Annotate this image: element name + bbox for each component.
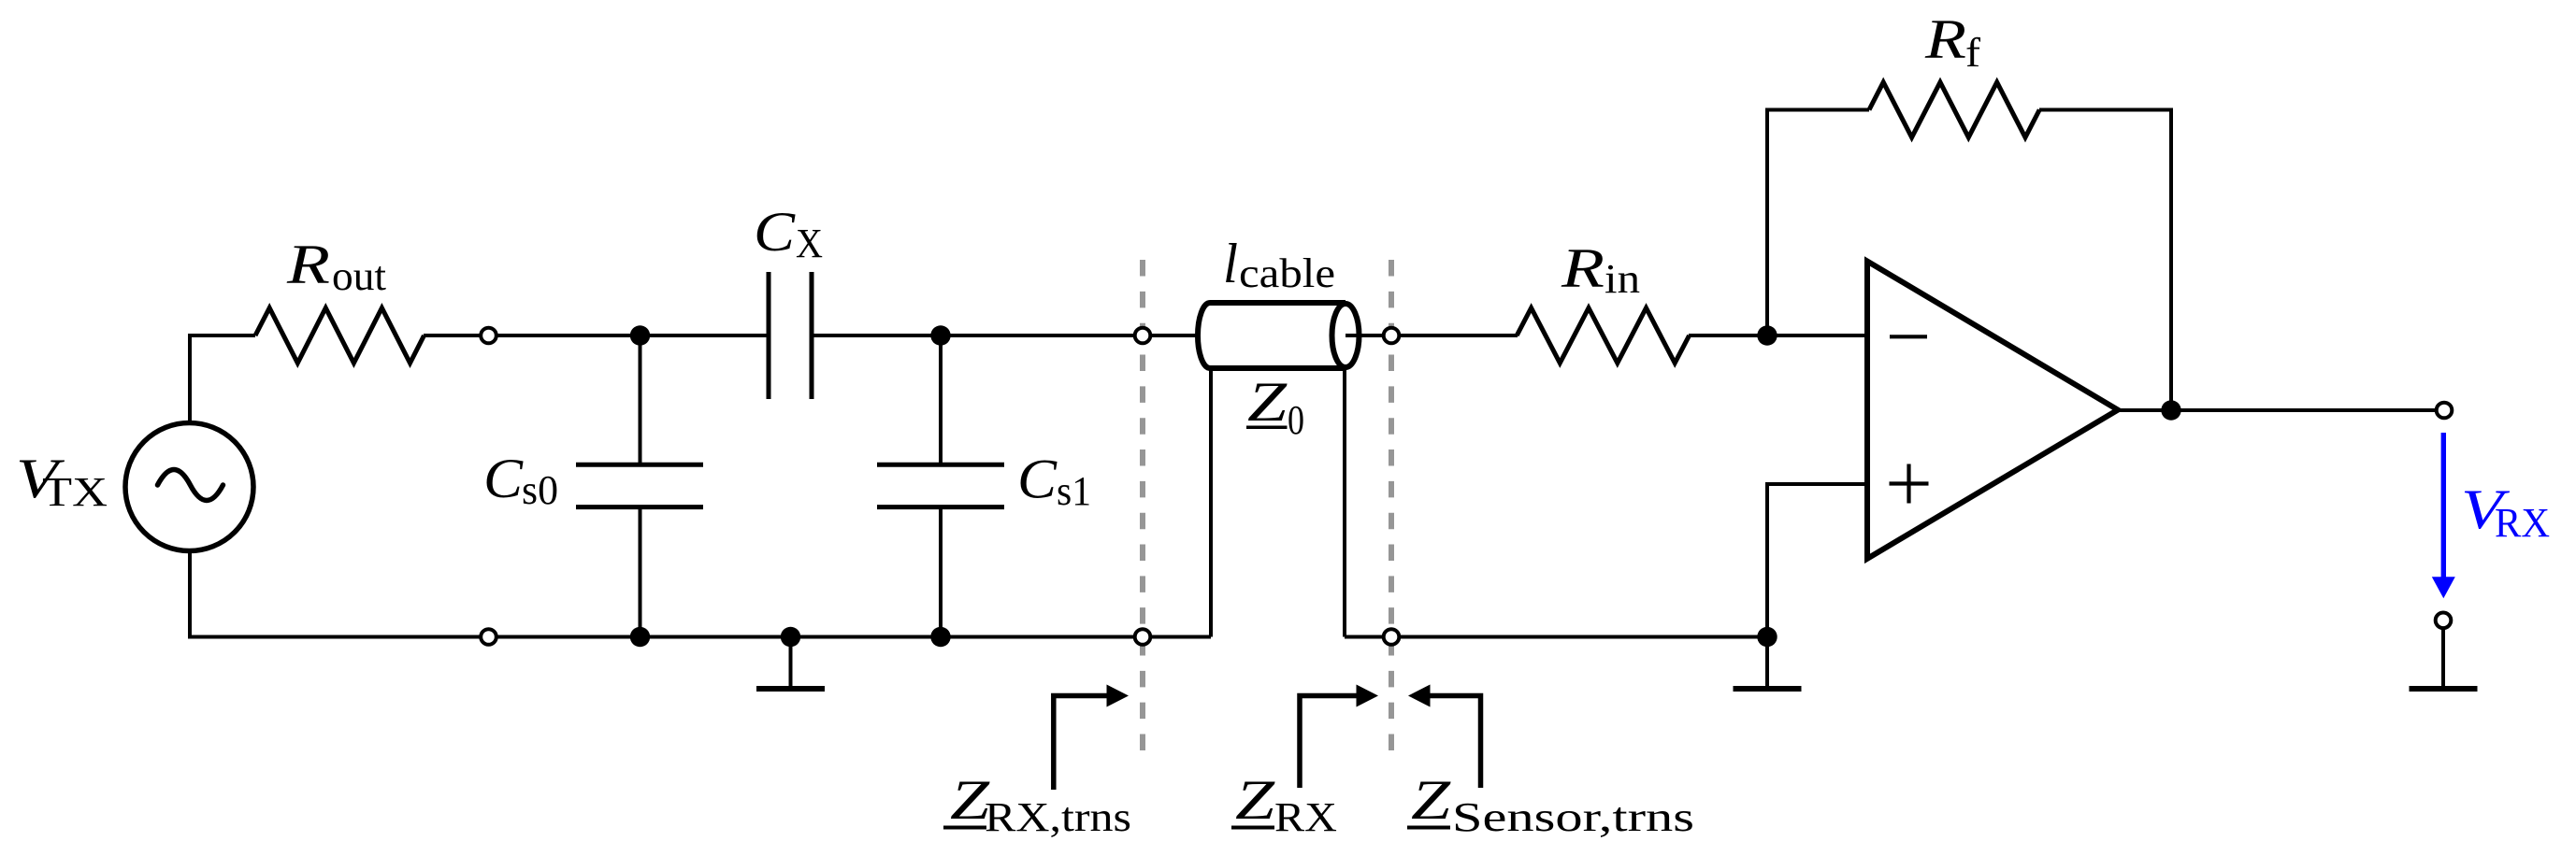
label Z_0 bbox=[1246, 371, 1304, 443]
svg-text:C: C bbox=[483, 448, 524, 509]
capacitor C_s0 bbox=[576, 464, 703, 506]
svg-text:cable: cable bbox=[1239, 250, 1335, 296]
svg-text:s1: s1 bbox=[1057, 468, 1091, 514]
svg-text:Z: Z bbox=[1411, 769, 1451, 831]
wire cable to R_in bbox=[1346, 334, 1518, 337]
op-amp U1 triangle bbox=[1867, 262, 2118, 559]
svg-text:s0: s0 bbox=[522, 467, 558, 513]
ground at output bbox=[2410, 629, 2478, 690]
wire C_s0 stubs bbox=[639, 335, 642, 464]
svg-text:TX: TX bbox=[42, 469, 108, 515]
svg-text:0: 0 bbox=[1288, 397, 1304, 443]
svg-text:in: in bbox=[1605, 256, 1640, 302]
wire feedback right vertical bbox=[2039, 110, 2171, 411]
label C_s0 bbox=[483, 448, 558, 513]
voltage source V_TX circle bbox=[125, 423, 253, 551]
svg-text:out: out bbox=[332, 253, 386, 299]
ground at C network bbox=[756, 637, 825, 690]
svg-text:C: C bbox=[754, 201, 796, 263]
svg-text:C: C bbox=[1017, 449, 1058, 510]
label Z_RX bbox=[1231, 769, 1337, 840]
wire op-amp output bbox=[2119, 408, 2436, 412]
resistor R_in bbox=[1517, 308, 1689, 364]
terminal circle bottom at left cut plane bbox=[1135, 629, 1151, 645]
node dot bottom C_s0 bbox=[630, 627, 650, 647]
terminal circle top at right cut plane bbox=[1384, 328, 1400, 344]
svg-text:Z: Z bbox=[1247, 371, 1288, 433]
wire C_X to cable bbox=[812, 334, 1200, 337]
node dot bottom C_s1 bbox=[930, 627, 950, 647]
annotation arrow Z_Sensor,trns bbox=[1408, 685, 1481, 789]
node dot bottom ground bbox=[781, 627, 800, 647]
wire R_out to C_X bbox=[424, 334, 769, 337]
label C_s1 bbox=[1017, 449, 1091, 515]
node dot op-amp minus junction bbox=[1757, 325, 1777, 345]
terminal circle after R_out top bbox=[481, 328, 496, 344]
wire C_s1 stubs bbox=[939, 335, 943, 464]
svg-text:Z: Z bbox=[1235, 769, 1275, 831]
resistor R_out bbox=[255, 308, 425, 364]
label R_out bbox=[286, 234, 386, 299]
capacitor C_s1 bbox=[877, 464, 1004, 506]
svg-text:X: X bbox=[796, 221, 823, 266]
svg-text:Sensor,trns: Sensor,trns bbox=[1452, 794, 1694, 840]
sine symbol inside source bbox=[158, 470, 223, 501]
terminal circle output V_RX bottom bbox=[2436, 613, 2452, 629]
svg-text:l: l bbox=[1223, 233, 1238, 294]
dashed cut line right (Z_Sensor plane) bbox=[1389, 260, 1394, 750]
capacitor C_X bbox=[769, 272, 812, 399]
annotation arrow Z_RX bbox=[1300, 685, 1378, 789]
wire R_in to op-amp minus input bbox=[1689, 334, 1867, 337]
label l_cable bbox=[1223, 233, 1335, 296]
label C_X bbox=[754, 201, 823, 266]
annotation arrow Z_RX,trns bbox=[1054, 685, 1129, 791]
label R_in bbox=[1561, 237, 1640, 302]
label R_f bbox=[1924, 8, 1981, 76]
resistor R_f bbox=[1869, 82, 2039, 137]
svg-text:RX,trns: RX,trns bbox=[985, 794, 1131, 840]
wire cable shield right leg bbox=[1343, 367, 1346, 637]
cable cylinder Z_0 bbox=[1198, 303, 1360, 368]
wire feedback left vertical bbox=[1767, 110, 1869, 336]
svg-text:R: R bbox=[1561, 237, 1605, 299]
terminal circle bottom at right cut plane bbox=[1384, 629, 1400, 645]
wire bottom rail right of cable bbox=[1345, 635, 1767, 639]
wire top rail left bbox=[190, 335, 255, 421]
node dot top C_s0 bbox=[630, 325, 650, 345]
op-amp minus sign bbox=[1890, 335, 1927, 338]
ground at op-amp plus rail bbox=[1734, 637, 1802, 690]
terminal circle top at left cut plane bbox=[1135, 328, 1151, 344]
label Z_RX,trns bbox=[943, 769, 1131, 840]
svg-text:R: R bbox=[286, 234, 330, 295]
svg-text:f: f bbox=[1965, 30, 1980, 76]
terminal circle bottom left bbox=[481, 629, 496, 645]
node dot top C_s1 bbox=[930, 325, 950, 345]
label V_RX (blue) bbox=[2461, 478, 2550, 546]
terminal circle output V_RX top bbox=[2437, 403, 2453, 419]
node dot output junction bbox=[2161, 400, 2180, 420]
op-amp plus sign bbox=[1890, 464, 1929, 504]
label V_TX bbox=[16, 448, 108, 515]
svg-text:RX: RX bbox=[1274, 794, 1337, 840]
dashed cut line left (Z_RX,trns plane) bbox=[1140, 260, 1145, 750]
wire cable shield left leg bbox=[1209, 367, 1213, 637]
V_RX blue arrow bbox=[2432, 433, 2455, 598]
node dot bottom op-amp rail bbox=[1757, 627, 1777, 647]
wire source bottom leg and bottom rail bbox=[190, 552, 1211, 637]
label Z_Sensor,trns bbox=[1407, 769, 1694, 840]
wire op-amp plus input bbox=[1767, 484, 1867, 637]
svg-text:R: R bbox=[1924, 8, 1966, 70]
svg-text:RX: RX bbox=[2495, 500, 2550, 546]
